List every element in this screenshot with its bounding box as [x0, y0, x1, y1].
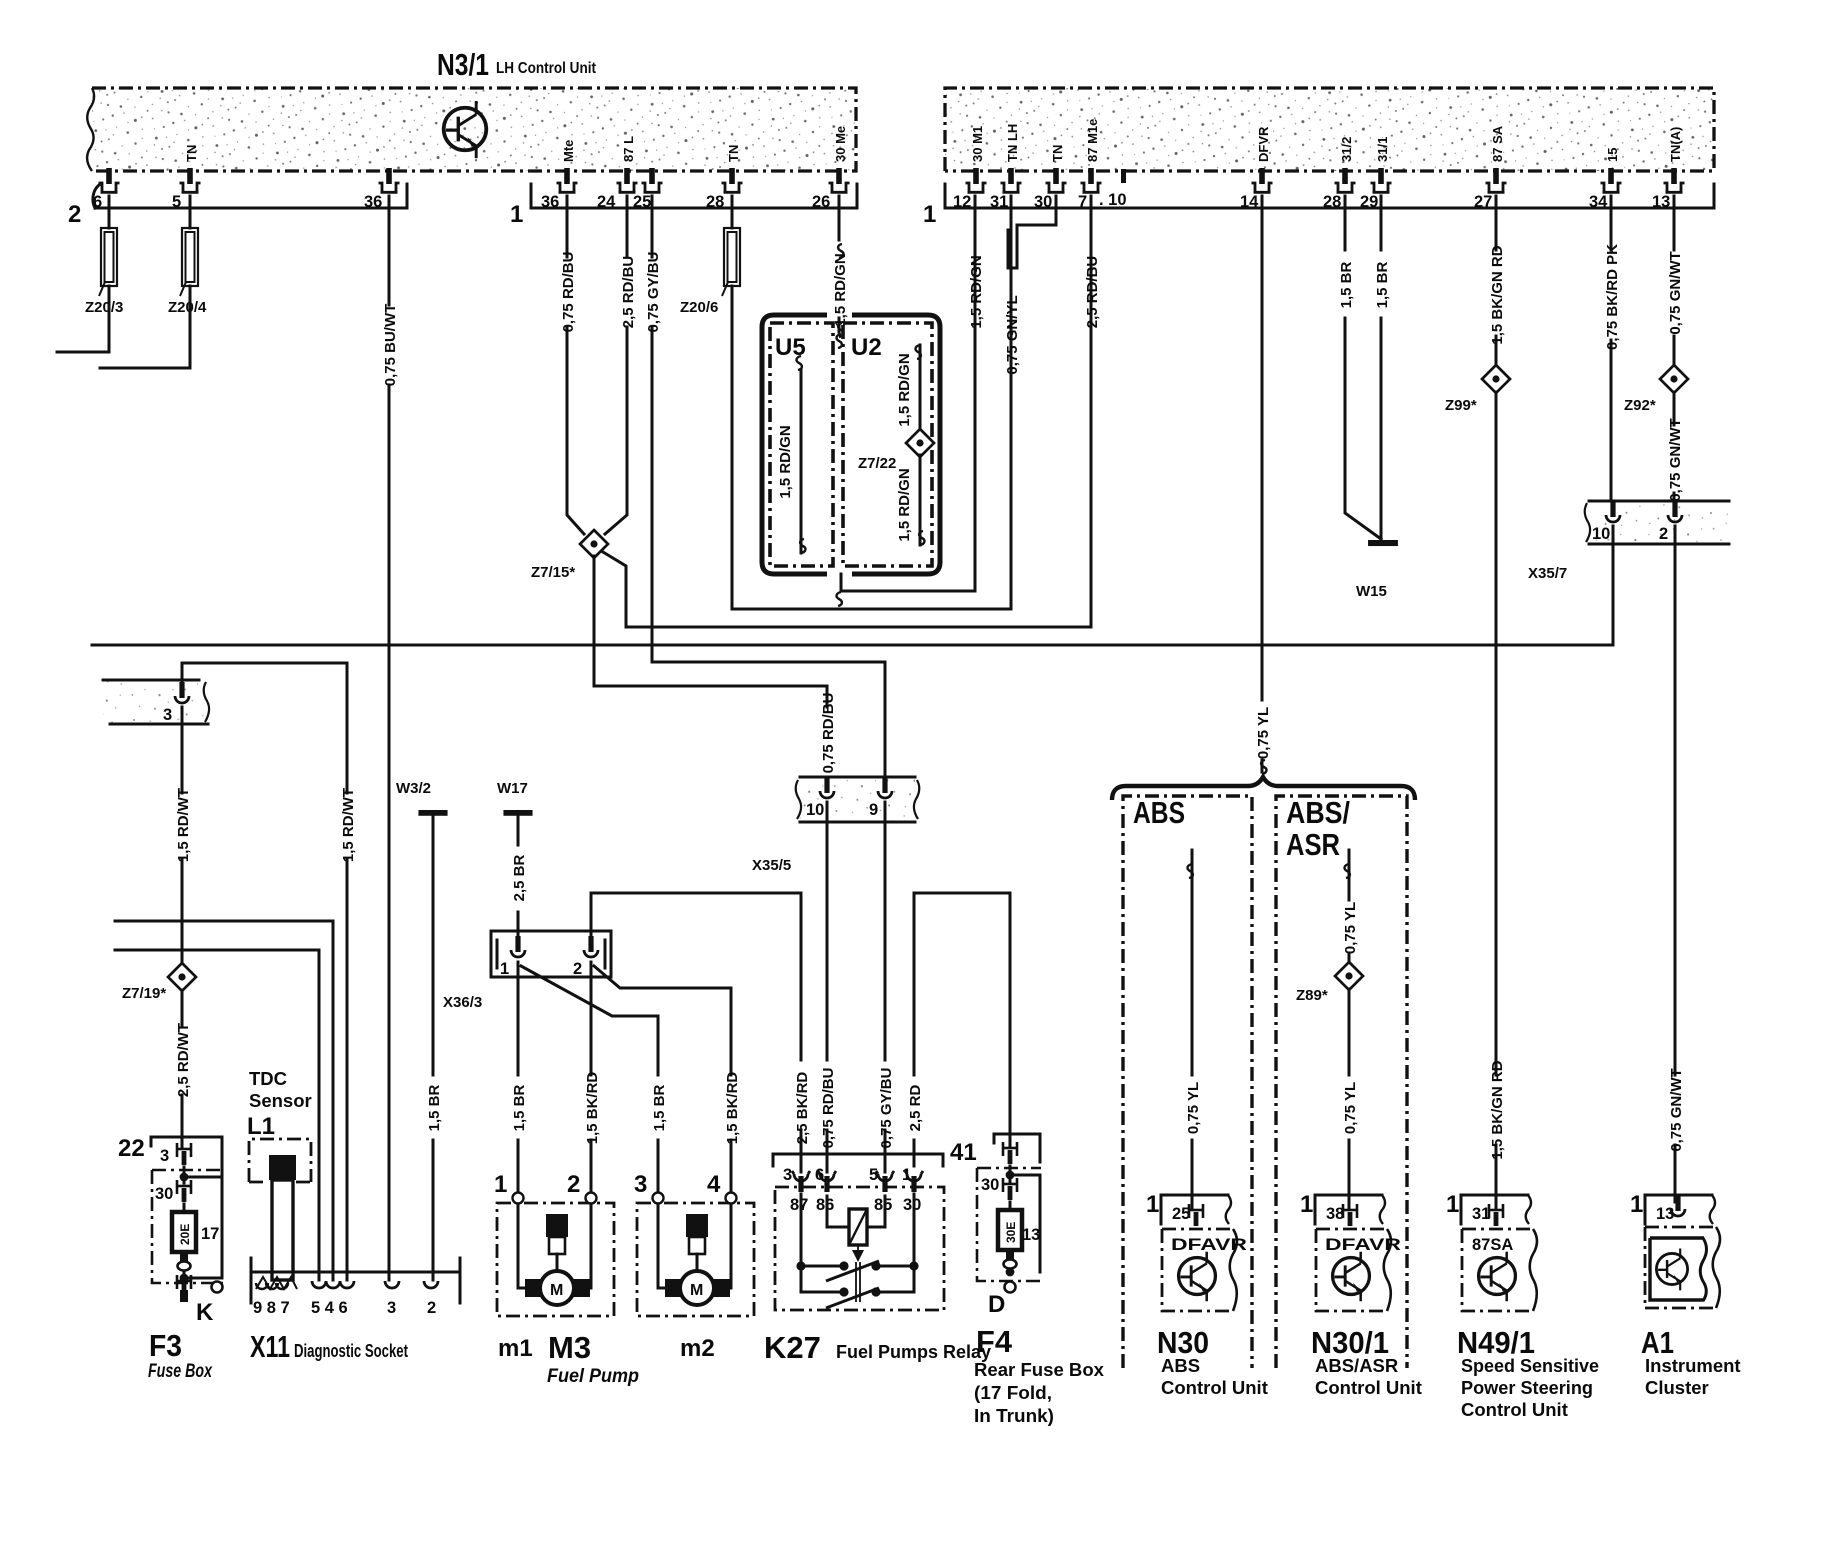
svg-text:L1: L1	[247, 1113, 275, 1140]
svg-text:F3: F3	[149, 1328, 182, 1363]
wire pin28 to fuse Z20/6	[731, 196, 734, 228]
svg-text:Fuse Box: Fuse Box	[148, 1361, 213, 1382]
svg-text:Control Unit: Control Unit	[1461, 1399, 1568, 1420]
svg-text:M3: M3	[548, 1330, 591, 1365]
svg-text:1,5 BR: 1,5 BR	[1374, 261, 1391, 308]
svg-text:30: 30	[1034, 193, 1052, 211]
svg-text:1: 1	[1300, 1191, 1313, 1218]
wire X35/5 pin10 to K27 86	[826, 802, 829, 1172]
svg-text:LH Control Unit: LH Control Unit	[496, 60, 597, 77]
wire pin36(Mte) to Z7/15	[567, 196, 584, 534]
svg-text:1,5 BK/RD: 1,5 BK/RD	[584, 1072, 601, 1145]
svg-text:0,75 GY/BU: 0,75 GY/BU	[645, 252, 662, 333]
svg-text:87SA: 87SA	[1472, 1236, 1513, 1254]
splice Z7/19*	[168, 963, 196, 991]
svg-text:30 Me: 30 Me	[833, 126, 848, 162]
pin 30 K27	[905, 1171, 923, 1192]
fuel pump m1 box	[497, 1203, 614, 1316]
svg-text:30: 30	[155, 1185, 173, 1203]
pin 10 X35/5	[820, 777, 834, 798]
svg-text:1,5 BR: 1,5 BR	[511, 1084, 528, 1131]
pin 87 K27	[792, 1171, 810, 1192]
wire Z99 down to N49/1	[1495, 392, 1498, 1208]
svg-text:0,75 RD/BU: 0,75 RD/BU	[560, 252, 577, 333]
fuse box F3 bracket 22	[118, 1135, 222, 1278]
svg-text:M: M	[550, 1282, 563, 1299]
wire pin30 to fuse F3	[183, 1204, 186, 1212]
label 1,5 RD/GN (pin26) with hooks	[832, 244, 849, 337]
terminal 1 m1	[513, 1193, 524, 1204]
wire inside U5	[800, 370, 803, 553]
svg-text:1,5 BK/RD: 1,5 BK/RD	[724, 1072, 741, 1145]
brace over ABS boxes	[1112, 777, 1415, 800]
wire F3 pin3 to pin30	[184, 1167, 222, 1183]
diagnostic socket X11 outline	[251, 1258, 460, 1303]
svg-text:3: 3	[634, 1171, 647, 1198]
svg-text:1,5 BK/GN RD: 1,5 BK/GN RD	[1489, 245, 1506, 344]
svg-text:1: 1	[923, 201, 936, 228]
wire inside U2 upper	[919, 345, 922, 431]
control unit N30 box	[1162, 1229, 1247, 1311]
long bus wire left	[92, 644, 1613, 647]
svg-text:X35/5: X35/5	[752, 857, 791, 874]
svg-text:K27: K27	[764, 1330, 821, 1365]
svg-text:M: M	[690, 1282, 703, 1299]
control unit N30/1 connector	[1300, 1191, 1385, 1226]
svg-text:25: 25	[1172, 1205, 1190, 1223]
svg-text:87 L: 87 L	[621, 136, 636, 162]
pump m1 internals	[518, 1204, 591, 1305]
svg-text:17: 17	[201, 1225, 219, 1243]
connector bracket group 1 left	[510, 184, 857, 228]
svg-text:In Trunk): In Trunk)	[974, 1405, 1054, 1426]
pin top F4	[1003, 1142, 1017, 1164]
junction dot F3 top	[180, 1173, 189, 1182]
svg-text:Z92*: Z92*	[1624, 397, 1656, 414]
wire Z20/3 down-left	[57, 286, 109, 352]
svg-text:22: 22	[118, 1135, 145, 1162]
hook at U2 top entry	[837, 334, 842, 348]
svg-text:Fuel Pump: Fuel Pump	[547, 1366, 639, 1387]
X11 pin 6	[340, 1281, 354, 1288]
svg-text:TN: TN	[184, 145, 199, 162]
pin 3 of connector	[175, 682, 189, 703]
svg-text:86: 86	[816, 1196, 834, 1214]
svg-text:85: 85	[874, 1196, 892, 1214]
svg-text:4: 4	[707, 1171, 721, 1198]
hook ASR wire top	[1345, 864, 1350, 878]
svg-text:2: 2	[567, 1171, 580, 1198]
svg-text:26: 26	[812, 193, 830, 211]
svg-text:Speed Sensitive: Speed Sensitive	[1461, 1355, 1599, 1376]
wire Z20/6 to TN node	[732, 286, 1011, 609]
svg-text:2,5 RD/WT: 2,5 RD/WT	[175, 1023, 192, 1097]
fuse element F4 (13)	[998, 1210, 1040, 1250]
svg-text:25: 25	[633, 193, 651, 211]
svg-text:2,5 BR: 2,5 BR	[511, 854, 528, 901]
junction dot F4 top	[1006, 1171, 1015, 1180]
svg-text:X35/7: X35/7	[1528, 565, 1567, 582]
svg-text:87 M1e: 87 M1e	[1085, 119, 1100, 162]
wire W3/2 to X11 pin2	[432, 815, 435, 1280]
svg-text:13: 13	[1652, 193, 1670, 211]
svg-text:DFVR: DFVR	[1256, 126, 1271, 162]
control unit N49/1 connector	[1446, 1191, 1531, 1226]
svg-text:X11: X11	[250, 1329, 290, 1364]
hook U2 wire top	[916, 345, 921, 359]
svg-text:30E: 30E	[1004, 1222, 1018, 1243]
wire U2 bottom exit to pin12	[841, 196, 975, 591]
svg-text:Z7/15*: Z7/15*	[531, 564, 575, 581]
control unit N30/1 box	[1316, 1229, 1401, 1311]
pin 86 K27	[818, 1171, 836, 1192]
svg-text:31: 31	[990, 193, 1008, 211]
pin 30 N3/1	[1046, 168, 1067, 192]
svg-text:ASR: ASR	[1286, 827, 1340, 862]
pin 6 N3/1	[99, 168, 120, 192]
contact circle D	[1005, 1282, 1016, 1293]
svg-text:0,75 BU/WT: 0,75 BU/WT	[382, 304, 399, 387]
svg-text:10: 10	[806, 801, 824, 819]
fuse box F3 dashed box	[152, 1170, 228, 1283]
pin 2 X35/7	[1668, 501, 1682, 522]
svg-text:Instrument: Instrument	[1645, 1355, 1741, 1376]
svg-text:Control Unit: Control Unit	[1161, 1377, 1268, 1398]
svg-text:Control Unit: Control Unit	[1315, 1377, 1422, 1398]
wire connector3 branch to X11 pin6	[182, 663, 347, 1280]
svg-text:2: 2	[573, 960, 582, 978]
K27 pin numbers top	[783, 1166, 911, 1184]
svg-text:. 10: . 10	[1099, 191, 1127, 209]
wire fuse F3 to contact	[183, 1252, 186, 1261]
svg-text:41: 41	[950, 1139, 977, 1166]
svg-text:TN(A): TN(A)	[1668, 127, 1683, 162]
svg-text:87: 87	[790, 1196, 808, 1214]
svg-text:ABS/ASR: ABS/ASR	[1315, 1355, 1398, 1376]
svg-text:0,75 BK/RD PK: 0,75 BK/RD PK	[1604, 244, 1621, 350]
svg-text:1,5 RD/GN: 1,5 RD/GN	[777, 425, 794, 498]
pin 28 N3/1 right	[1335, 168, 1356, 192]
wire X36/3 pin1 to m1 terminal1	[517, 962, 520, 1193]
svg-text:2,5 RD: 2,5 RD	[907, 1084, 924, 1131]
wire Z7/15 to pin7 (87M1e)	[603, 196, 1091, 627]
pin 85 K27	[876, 1171, 894, 1192]
svg-text:7: 7	[1078, 193, 1087, 211]
ground W15	[1368, 540, 1398, 546]
contact ellipse F3	[178, 1262, 191, 1271]
svg-text:15: 15	[1605, 148, 1620, 162]
pin 34 N3/1	[1601, 168, 1622, 192]
wire W17 to X36/3 pin1	[517, 815, 520, 936]
wire cut to X11 pin5	[115, 950, 319, 1280]
svg-text:0,75 YL: 0,75 YL	[1255, 707, 1272, 759]
svg-text:Fuel Pumps Relay: Fuel Pumps Relay	[836, 1341, 992, 1362]
instrument cluster A1 connector	[1630, 1191, 1715, 1224]
K27 terminal labels	[790, 1196, 921, 1214]
svg-text:Z20/6: Z20/6	[680, 299, 718, 316]
svg-text:Z99*: Z99*	[1445, 397, 1477, 414]
svg-text:W15: W15	[1356, 583, 1387, 600]
relay K27 connector bracket	[773, 1154, 943, 1166]
svg-text:31: 31	[1472, 1205, 1490, 1223]
fuse box F4 dashed box	[977, 1168, 1041, 1281]
svg-text:0,75 GY/BU: 0,75 GY/BU	[878, 1068, 895, 1149]
pin 9 X35/5	[878, 777, 892, 798]
svg-text:13: 13	[1022, 1226, 1040, 1244]
wire X35/5 pin9 to K27 85	[884, 802, 887, 1172]
wire pin34 to X35/7 pin10	[1610, 196, 1613, 505]
X11 pin 5	[312, 1281, 326, 1288]
svg-text:3: 3	[387, 1299, 396, 1317]
wire inside ASR to Z89	[1348, 850, 1351, 962]
svg-text:DFAVR: DFAVR	[1171, 1236, 1247, 1254]
wire pin5 to fuse Z20/4	[189, 196, 192, 228]
svg-text:14: 14	[1240, 193, 1259, 211]
svg-text:2,5 BK/RD: 2,5 BK/RD	[794, 1072, 811, 1145]
svg-text:1: 1	[494, 1171, 507, 1198]
svg-text:0,75 GN/WT: 0,75 GN/WT	[1667, 251, 1684, 334]
wire Z92 to X35/7 pin2	[1673, 392, 1676, 505]
wire K27 30 riser to F4	[914, 893, 1010, 1166]
fuse Z20/3	[99, 228, 117, 296]
svg-text:N3/1: N3/1	[437, 47, 489, 82]
pin 29 N3/1	[1371, 168, 1392, 192]
wire X36/3 pin2 to m1 terminal2	[590, 962, 593, 1193]
control unit N3/1 title	[437, 47, 597, 82]
svg-text:1,5 RD/GN: 1,5 RD/GN	[896, 353, 913, 426]
hook U5 wire top	[797, 356, 802, 370]
svg-text:DFAVR: DFAVR	[1325, 1236, 1401, 1254]
pin 1 X36/3	[511, 936, 525, 957]
contact circle K	[212, 1282, 223, 1293]
wire Z20/4 down-left	[100, 286, 190, 368]
control unit N30 connector	[1146, 1191, 1231, 1226]
pin 10 X35/7	[1606, 501, 1620, 522]
control unit N49/1 box	[1462, 1229, 1537, 1311]
svg-text:1: 1	[1146, 1191, 1159, 1218]
wire X36/3 pin2 riser to K27 87	[591, 893, 801, 1172]
svg-text:2: 2	[68, 201, 81, 228]
svg-text:0,75 YL: 0,75 YL	[1342, 1082, 1359, 1134]
fuse Z20/6	[722, 228, 740, 296]
svg-text:2: 2	[427, 1299, 436, 1317]
wire pin36 to X11 pin3	[388, 196, 391, 1280]
connector (pin 3) cut box	[103, 680, 209, 724]
wire F4 pin to 30	[1010, 1166, 1040, 1272]
svg-text:Cluster: Cluster	[1645, 1377, 1709, 1398]
pin 14 N3/1	[1252, 168, 1273, 192]
svg-text:1,5 RD/GN: 1,5 RD/GN	[832, 253, 849, 326]
svg-text:1: 1	[510, 201, 523, 228]
svg-text:m1: m1	[498, 1335, 533, 1362]
wire F3 bottom to K edge	[184, 1272, 222, 1283]
svg-text:W17: W17	[497, 780, 528, 797]
svg-text:2,5 RD/BU: 2,5 RD/BU	[1084, 256, 1101, 329]
hook U2 wire bottom	[919, 531, 924, 545]
control unit N3/1 box left	[87, 88, 856, 171]
wire Z7/19 to F3 pin3	[181, 990, 184, 1148]
connector bracket group 1 right	[923, 184, 1714, 228]
svg-text:ABS: ABS	[1133, 795, 1185, 830]
svg-text:3: 3	[160, 1147, 169, 1165]
svg-text:X36/3: X36/3	[443, 994, 482, 1011]
relay contacts K27	[796, 1194, 918, 1308]
pin 31 N3/1	[1001, 168, 1022, 192]
TDC sensor text	[247, 1068, 312, 1140]
pin 2 X36/3	[584, 936, 598, 957]
svg-text:Diagnostic Socket: Diagnostic Socket	[294, 1340, 408, 1361]
wire pin30 TN jog	[1008, 196, 1056, 268]
svg-text:D: D	[988, 1291, 1005, 1318]
pin 36 N3/1 left	[379, 168, 400, 192]
svg-text:Z89*: Z89*	[1296, 987, 1328, 1004]
hook U2 bottom exit	[837, 592, 842, 606]
wire X36/3 pin1 diagonal to m2 terminal3	[521, 966, 658, 1193]
pin 28 N3/1	[722, 168, 743, 192]
X11 pin hooks 9 8 7	[256, 1283, 288, 1289]
svg-text:1,5 BR: 1,5 BR	[651, 1084, 668, 1131]
sensor L1 box	[249, 1139, 311, 1182]
splice Z7/22	[906, 429, 934, 457]
svg-text:6: 6	[93, 193, 102, 211]
svg-text:m2: m2	[680, 1335, 715, 1362]
svg-text:31/1: 31/1	[1375, 137, 1390, 162]
svg-text:K: K	[196, 1299, 214, 1326]
svg-text:1,5 BK/GN RD: 1,5 BK/GN RD	[1489, 1060, 1506, 1159]
wire pin24 to Z7/15	[605, 196, 627, 534]
connector X36/3 box	[491, 931, 611, 977]
ground W17	[497, 780, 533, 816]
ABS unit dashed box	[1123, 796, 1252, 1368]
junction dot F4 bottom	[1006, 1268, 1015, 1277]
wire pin29 (31/1) to W15	[1380, 196, 1383, 539]
fuse Z20/4	[180, 228, 198, 296]
svg-text:24: 24	[597, 193, 616, 211]
wire connector3 down to Z7/19	[181, 707, 184, 963]
pin 26 N3/1	[829, 168, 850, 192]
svg-text:U2: U2	[851, 334, 882, 361]
svg-text:29: 29	[1360, 193, 1378, 211]
pin 27 N3/1	[1486, 168, 1507, 192]
U5 U2 outer housing box	[762, 315, 940, 574]
component U2 box	[843, 323, 932, 566]
relay K27 box	[775, 1187, 944, 1310]
fuel pump m2 box	[637, 1203, 754, 1316]
wire X36/3 pin2 diagonal to m2 terminal4	[594, 966, 731, 1193]
svg-text:30 M1: 30 M1	[970, 126, 985, 162]
wire into connector pin3	[181, 663, 184, 685]
svg-text:Power Steering: Power Steering	[1461, 1377, 1593, 1398]
wire X35/7 pin2 to A1	[1674, 526, 1677, 1202]
svg-text:31/2: 31/2	[1339, 137, 1354, 162]
connector bracket group 2	[68, 184, 407, 228]
svg-text:ABS/: ABS/	[1286, 795, 1350, 830]
svg-text:36: 36	[541, 193, 559, 211]
svg-text:5: 5	[172, 193, 181, 211]
sensor L1 body	[269, 1155, 296, 1280]
wire Z89 to N30/1	[1348, 989, 1351, 1208]
svg-text:9: 9	[869, 801, 878, 819]
svg-text:10: 10	[1592, 525, 1610, 543]
rear fuse box F4 bracket 41	[950, 1134, 1040, 1166]
svg-text:ABS: ABS	[1161, 1355, 1200, 1376]
control unit N3/1 box right	[945, 88, 1714, 171]
relay coil K27	[827, 1196, 885, 1245]
svg-text:9 8 7: 9 8 7	[253, 1299, 290, 1317]
ground W3/2	[396, 780, 448, 816]
svg-text:27: 27	[1474, 193, 1492, 211]
component U5 box	[770, 323, 833, 566]
wire pin26 to U2 box	[838, 196, 841, 332]
wire X35/7 pin10 to long bus	[1612, 526, 1615, 645]
wire pin6 to fuse Z20/3	[108, 196, 111, 228]
svg-text:Mte: Mte	[561, 140, 576, 162]
pin 24 N3/1	[617, 168, 638, 192]
pin 12 N3/1 right	[966, 168, 987, 192]
svg-text:2,5 RD/BU: 2,5 RD/BU	[620, 256, 637, 329]
relay armature arrow	[852, 1245, 864, 1302]
svg-text:Z7/22: Z7/22	[858, 455, 896, 472]
connector X35/5 box	[796, 777, 920, 822]
svg-text:W3/2: W3/2	[396, 780, 431, 797]
wire pin30 to fuse F4	[1009, 1202, 1012, 1210]
svg-text:38: 38	[1326, 1205, 1344, 1223]
svg-text:0,75 GN/YL: 0,75 GN/YL	[1004, 295, 1021, 374]
svg-text:1,5 RD/WT: 1,5 RD/WT	[175, 788, 192, 862]
svg-text:TDC: TDC	[249, 1068, 287, 1089]
node Z7/15* splice	[580, 530, 608, 558]
svg-text:28: 28	[1323, 193, 1341, 211]
hook at brace entry	[1261, 760, 1266, 774]
pin 5 N3/1	[180, 168, 201, 192]
svg-text:1,5 BR: 1,5 BR	[1338, 261, 1355, 308]
svg-text:3: 3	[783, 1166, 792, 1184]
svg-text:Rear Fuse Box: Rear Fuse Box	[974, 1359, 1105, 1380]
svg-text:Z20/3: Z20/3	[85, 299, 123, 316]
connector X35/7	[1585, 501, 1729, 544]
svg-text:1,5 RD/WT: 1,5 RD/WT	[340, 788, 357, 862]
svg-text:1: 1	[500, 960, 509, 978]
svg-text:12: 12	[953, 193, 971, 211]
svg-text:Sensor: Sensor	[249, 1090, 312, 1111]
wire cut to X11 pin4	[115, 921, 333, 1280]
svg-text:0,75 GN/WT: 0,75 GN/WT	[1667, 418, 1684, 501]
svg-text:20E: 20E	[178, 1224, 192, 1245]
svg-text:1,5 BR: 1,5 BR	[426, 1084, 443, 1131]
svg-text:30: 30	[981, 1176, 999, 1194]
svg-text:30: 30	[903, 1196, 921, 1214]
pin 30 F3	[155, 1180, 191, 1203]
transistor inside N3/1	[444, 101, 487, 158]
svg-text:F4: F4	[976, 1324, 1013, 1359]
svg-text:1: 1	[1446, 1191, 1459, 1218]
svg-text:0,75 GN/WT: 0,75 GN/WT	[1668, 1068, 1685, 1151]
hook ABS wire top	[1188, 864, 1193, 878]
fuse element F3 (17)	[172, 1212, 219, 1252]
svg-text:87 SA: 87 SA	[1490, 125, 1505, 162]
wire pin28 (31/2) to W15	[1345, 196, 1381, 539]
wire Z7/15 to X35/5 pin10	[594, 556, 827, 707]
splice Z89*	[1335, 962, 1363, 990]
terminal 2 m1	[586, 1193, 597, 1204]
X11 pin 2	[424, 1281, 438, 1288]
wire pin31 TN LH down to TN bus	[1010, 196, 1013, 609]
terminal 4 m2	[726, 1193, 737, 1204]
svg-text:Z20/4: Z20/4	[168, 299, 207, 316]
splice Z92*	[1660, 365, 1688, 393]
wire pin27 to splice Z99	[1495, 196, 1498, 365]
junction dot F3 bottom	[180, 1274, 189, 1283]
